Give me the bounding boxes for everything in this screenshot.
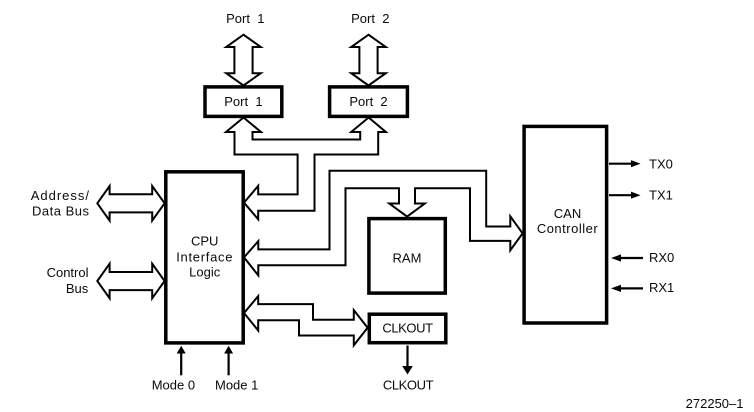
svg-text:CAN: CAN	[554, 206, 581, 221]
svg-text:Mode 1: Mode 1	[215, 378, 258, 393]
svg-text:TX1: TX1	[649, 188, 673, 203]
svg-text:Port 2: Port 2	[351, 11, 389, 26]
svg-text:Controller: Controller	[537, 221, 599, 236]
svg-text:TX0: TX0	[649, 156, 673, 171]
svg-text:Control: Control	[47, 265, 89, 280]
svg-text:Address/: Address/	[31, 188, 90, 203]
svg-text:272250–1: 272250–1	[686, 396, 744, 411]
svg-text:Logic: Logic	[189, 265, 221, 280]
svg-text:Data Bus: Data Bus	[32, 204, 89, 219]
svg-text:RAM: RAM	[393, 251, 422, 266]
svg-text:CLKOUT: CLKOUT	[382, 321, 433, 336]
svg-text:Port 1: Port 1	[224, 94, 262, 109]
svg-text:RX0: RX0	[649, 250, 674, 265]
svg-text:Port 1: Port 1	[226, 11, 264, 26]
svg-text:Mode 0: Mode 0	[152, 378, 195, 393]
svg-text:RX1: RX1	[649, 280, 674, 295]
svg-text:CPU: CPU	[191, 234, 218, 249]
svg-text:Bus: Bus	[66, 281, 89, 296]
svg-text:CLKOUT: CLKOUT	[383, 377, 434, 392]
svg-text:Interface: Interface	[176, 249, 233, 264]
svg-text:Port 2: Port 2	[349, 94, 387, 109]
